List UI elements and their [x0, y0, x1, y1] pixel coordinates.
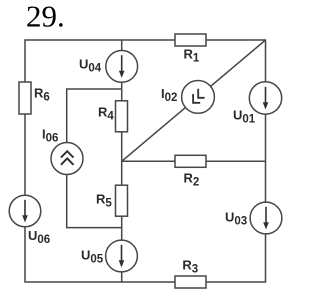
svg-text:29.: 29.: [26, 0, 65, 34]
